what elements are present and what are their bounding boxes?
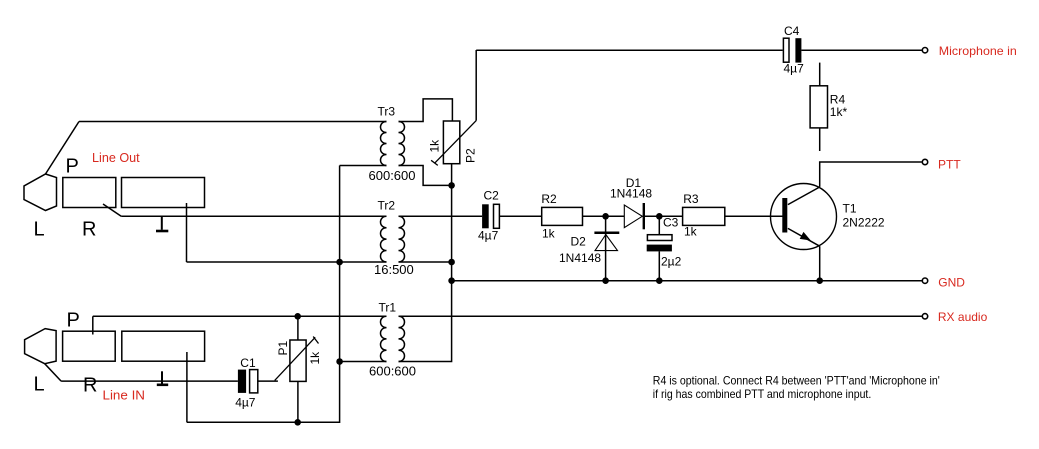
wire tip to top rail — [46, 122, 80, 175]
node junction T1 emitter/ground rail — [816, 277, 823, 284]
node junction GND rail start — [448, 277, 455, 284]
wire common vertical (Tr3 primary bottom down to bottom return) — [187, 166, 340, 423]
wire R4 bottom lead (floating) — [819, 128, 821, 151]
svg-text:C3: C3 — [663, 216, 679, 230]
svg-text:600:600: 600:600 — [369, 168, 416, 183]
wire bottom return line — [187, 421, 340, 423]
svg-text:4µ7: 4µ7 — [235, 396, 256, 410]
svg-text:1k*: 1k* — [830, 105, 848, 119]
svg-text:4µ7: 4µ7 — [784, 61, 805, 75]
node junction Tr2 secondary bottom — [448, 259, 455, 266]
svg-text:PTT: PTT — [938, 158, 961, 172]
transformer Tr3 primary winding — [381, 122, 387, 166]
transistor T1 collector lead — [788, 187, 820, 205]
capacitor C1 left plate (polarized) — [238, 370, 246, 393]
wire microphone rail right of C4 — [801, 49, 921, 51]
wire Line IN P rail to Tr1 primary top — [93, 315, 387, 317]
svg-text:R4 is optional. Connect R4 bet: R4 is optional. Connect R4 between 'PTT'… — [653, 373, 940, 387]
svg-text:Tr2: Tr2 — [378, 198, 396, 212]
wire Line IN sleeve drop — [186, 352, 188, 422]
svg-text:R: R — [82, 219, 96, 241]
capacitor C4 right plate (polarized) — [795, 38, 801, 62]
wire top rail (Line Out L to Tr3 primary top) — [79, 121, 387, 123]
wire C2 to R2 — [499, 215, 541, 217]
wire Tr2 primary bottom to common vertical — [340, 261, 387, 263]
svg-text:1k: 1k — [308, 351, 322, 365]
resistor R3 — [683, 207, 725, 225]
diode D2 cathode bar — [594, 232, 619, 235]
transformer Tr1 primary winding — [381, 316, 387, 361]
wire T1 emitter to ground rail — [819, 246, 821, 281]
wire C1 to P1 wiper — [258, 380, 278, 382]
connector Line IN sleeve contact — [122, 331, 205, 361]
svg-text:1k: 1k — [428, 139, 442, 153]
transistor T1 body circle — [771, 184, 837, 250]
svg-text:D2: D2 — [571, 234, 587, 248]
capacitor C2 left plate (polarized) — [482, 204, 489, 228]
transformer Tr3 secondary winding — [399, 122, 405, 166]
diode D1 anode triangle — [624, 205, 642, 228]
svg-text:1N4148: 1N4148 — [559, 251, 601, 265]
transistor T1 emitter lead — [788, 228, 820, 246]
wire P1 top lead — [297, 316, 299, 340]
capacitor C3 bottom lead to ground rail — [658, 251, 660, 280]
capacitor C3 top plate — [647, 235, 672, 241]
wire P2 bottom lead — [451, 164, 453, 186]
wire Tr3 secondary bottom to junction — [399, 166, 452, 186]
wire R3 to T1 base — [725, 215, 783, 217]
svg-text:P: P — [66, 156, 79, 178]
resistor R2 — [542, 207, 583, 225]
wire GND rail — [452, 280, 922, 282]
resistor R4 — [810, 86, 827, 128]
ground mark (Line Out sleeve) — [161, 216, 163, 229]
connector Line Out tip contact (L) — [24, 174, 57, 211]
capacitor C1 right plate — [250, 370, 258, 393]
terminal RX audio — [922, 314, 927, 319]
svg-text:L: L — [34, 219, 45, 241]
svg-text:Line IN: Line IN — [103, 388, 146, 403]
wire Line IN tip line to C1 — [61, 380, 238, 382]
svg-text:GND: GND — [938, 275, 965, 289]
wire R rail to Tr2 primary top — [121, 215, 386, 217]
transistor T1 base bar — [782, 198, 787, 233]
connector Line IN ring contact (P) — [63, 331, 116, 361]
wire P2 wiper up to microphone rail — [475, 50, 477, 121]
svg-text:Microphone in: Microphone in — [939, 44, 1017, 58]
wire RX audio rail (Tr1 secondary top to terminal) — [399, 315, 922, 317]
capacitor C2 right plate — [494, 204, 500, 228]
svg-text:2N2222: 2N2222 — [843, 215, 885, 229]
transformer Tr2 primary winding — [381, 216, 387, 262]
diode D1 cathode bar — [643, 203, 645, 229]
svg-text:P: P — [67, 309, 80, 331]
wire Line IN tip diagonal — [45, 364, 61, 381]
svg-text:P1: P1 — [276, 340, 290, 355]
svg-text:Tr3: Tr3 — [378, 105, 396, 119]
diode D2 anode triangle — [595, 235, 618, 251]
svg-text:16:500: 16:500 — [374, 262, 414, 277]
svg-text:1k: 1k — [542, 227, 556, 241]
wire Tr2 secondary top to C2 — [399, 215, 483, 217]
node A junction R2/D1/D2 — [602, 213, 609, 220]
svg-text:C2: C2 — [484, 189, 500, 203]
wire Tr2 secondary bottom to ground vertical — [399, 261, 452, 263]
wire D1 to R3 — [645, 215, 683, 217]
node junction Tr3/P2 — [448, 182, 455, 189]
svg-text:1k: 1k — [684, 225, 698, 239]
node junction P1 bottom/bottom return — [294, 419, 301, 426]
svg-text:1N4148: 1N4148 — [610, 187, 652, 201]
svg-text:Line Out: Line Out — [92, 150, 140, 165]
svg-text:4µ7: 4µ7 — [478, 229, 499, 243]
svg-text:L: L — [34, 374, 45, 396]
svg-text:R2: R2 — [541, 192, 557, 206]
wire ground vertical (P2 junction to Tr1 secondary bottom) — [399, 185, 452, 361]
svg-text:C4: C4 — [784, 24, 800, 38]
wire R2 to D1 — [583, 215, 625, 217]
node junction C3/ground rail — [656, 277, 663, 284]
wire P1 bottom lead — [297, 381, 299, 422]
node B junction D1/C3/R3 — [656, 213, 663, 220]
capacitor C3 bottom plate (polarized) — [647, 245, 672, 252]
terminal Microphone in — [922, 48, 927, 53]
wire Tr1 primary bottom to common vertical — [340, 361, 387, 363]
terminal PTT — [922, 159, 927, 164]
transistor T1 emitter arrow — [800, 232, 811, 241]
svg-text:C1: C1 — [240, 356, 256, 370]
wire Line IN P contact up to Tr1 rail — [92, 316, 94, 334]
svg-text:if rig has combined PTT and mi: if rig has combined PTT and microphone i… — [653, 387, 872, 401]
wire P2 wiper arrow — [431, 121, 476, 166]
svg-text:2µ2: 2µ2 — [661, 254, 682, 268]
wire Tr3 secondary top to P2 top — [399, 99, 453, 122]
wire Line Out sleeve to common node — [187, 261, 340, 263]
terminal GND — [922, 278, 927, 283]
capacitor C4 left plate — [783, 38, 789, 62]
wire R4 top lead (floating) — [819, 63, 821, 86]
svg-text:Tr1: Tr1 — [379, 300, 397, 314]
ground mark (Line IN sleeve) — [161, 371, 163, 383]
wire Line Out sleeve drop — [186, 203, 188, 262]
connector Line Out sleeve contact — [122, 178, 205, 208]
wire PTT rail — [820, 162, 922, 187]
potentiometer P1 body — [290, 340, 306, 381]
wire P1 wiper arrow — [275, 337, 319, 381]
wire R contact diagonal — [103, 204, 121, 216]
node junction D2/ground rail — [602, 277, 609, 284]
wire microphone rail left of C4 — [476, 49, 783, 51]
wire Tr3 primary bottom to common vertical — [340, 165, 387, 167]
connector Line IN tip contact (L) — [25, 329, 56, 364]
node junction Tr2 primary bottom/common vertical — [336, 259, 343, 266]
transformer Tr1 secondary winding — [399, 316, 405, 361]
node junction Tr1 primary bottom/common vertical — [336, 358, 343, 365]
svg-text:P2: P2 — [464, 148, 478, 163]
connector Line Out ring contact (R) — [63, 178, 116, 208]
svg-text:600:600: 600:600 — [369, 364, 416, 379]
svg-text:T1: T1 — [843, 202, 857, 216]
potentiometer P2 body — [443, 121, 459, 164]
transformer Tr2 secondary winding — [399, 216, 405, 262]
capacitor C3 top lead — [658, 216, 660, 234]
svg-text:RX audio: RX audio — [938, 310, 988, 324]
node junction P1 top/P rail — [294, 313, 301, 320]
svg-text:R3: R3 — [683, 192, 699, 206]
wire D2 branch vertical (node A to ground rail) — [605, 216, 607, 280]
svg-text:R: R — [83, 375, 97, 397]
